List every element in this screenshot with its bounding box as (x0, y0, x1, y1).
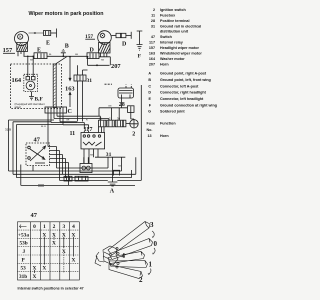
stalk position 1 (109, 261, 148, 268)
svg-text:F: F (138, 54, 142, 60)
connector E (top) (44, 31, 51, 36)
headlight wiper motor 157 (left) (15, 32, 29, 57)
svg-text:P: P (22, 257, 26, 263)
svg-text:1: 1 (149, 261, 153, 269)
svg-text:53b: 53b (20, 241, 28, 247)
wire to terminal (126, 35, 131, 37)
stalk position 0 (109, 239, 153, 260)
switch position table (18, 222, 80, 280)
svg-text:Ignition switch: Ignition switch (160, 8, 187, 12)
svg-text:E: E (46, 41, 50, 47)
ground F (137, 31, 143, 50)
svg-text:30: 30 (117, 116, 120, 120)
svg-text:47: 47 (31, 212, 38, 219)
horizontals under C (51, 116, 109, 129)
svg-text:B: B (148, 78, 151, 82)
svg-text:+53a: +53a (18, 232, 29, 238)
svg-text:Ground point, left, front wing: Ground point, left, front wing (160, 78, 211, 82)
soldered joint box (128, 106, 135, 113)
svg-text:157: 157 (149, 46, 155, 50)
svg-text:11: 11 (151, 13, 155, 17)
svg-text:2: 2 (132, 132, 135, 138)
svg-text:163: 163 (149, 52, 155, 56)
svg-text:C: C (68, 109, 72, 115)
svg-text:A: A (148, 72, 151, 76)
svg-text:Windshield wiper motor: Windshield wiper motor (160, 52, 202, 56)
svg-text:Internal switch positions in s: Internal switch positions in selector 47 (18, 287, 84, 291)
svg-text:31 B: 31 B (5, 128, 11, 132)
wire motor157R to connector D (112, 35, 117, 37)
svg-text:31b: 31b (19, 274, 27, 280)
svg-text:31: 31 (106, 152, 112, 158)
svg-text:0: 0 (33, 224, 36, 230)
svg-text:Switch: Switch (160, 35, 173, 39)
ground rail 31 bus (95, 152, 125, 158)
svg-text:164: 164 (12, 77, 22, 84)
table X marks and links (33, 232, 76, 280)
svg-text:Connector, left headlight: Connector, left headlight (160, 97, 204, 101)
svg-text:GR: GR (66, 120, 70, 122)
stalk position 2 (109, 265, 143, 279)
svg-text:Horn: Horn (160, 134, 169, 138)
svg-text:Ground point, right A-post: Ground point, right A-post (160, 72, 207, 76)
tiny wire labels (38, 185, 44, 187)
wires at connector 31 box (78, 65, 88, 121)
svg-text:D: D (90, 48, 95, 54)
svg-text:E: E (149, 97, 152, 101)
terminal bar (56, 29, 58, 38)
stalk labels (122, 221, 158, 284)
svg-text:13: 13 (148, 134, 152, 138)
svg-text:SB: SB (101, 60, 104, 62)
stalk 4 (park) (108, 252, 145, 264)
svg-text:A: A (110, 189, 115, 195)
svg-text:Wiper motors in park position: Wiper motors in park position (29, 11, 104, 17)
svg-text:Connector, right headlight: Connector, right headlight (160, 91, 207, 95)
svg-text:J: J (23, 249, 26, 255)
svg-text:207: 207 (149, 62, 155, 66)
svg-text:0: 0 (154, 240, 158, 248)
legend (147, 8, 217, 138)
table header glyph (20, 225, 27, 229)
svg-text:4: 4 (122, 252, 126, 260)
svg-text:164: 164 (149, 57, 156, 61)
switch pin stubs (50, 147, 69, 163)
svg-text:11: 11 (70, 131, 76, 137)
wire to terminal (51, 32, 57, 34)
svg-text:C: C (148, 84, 151, 88)
svg-text:2: 2 (139, 276, 143, 284)
svg-text:3: 3 (150, 221, 154, 229)
svg-text:47: 47 (151, 35, 155, 39)
ground B,F under 164 (29, 92, 34, 100)
headlight wiper motor 157 (right) (98, 31, 112, 57)
svg-text:31: 31 (87, 78, 93, 84)
wire D row2 to elbow (99, 57, 110, 66)
svg-text:2: 2 (153, 8, 155, 12)
svg-text:Connector, left A-post: Connector, left A-post (160, 84, 199, 88)
micro wire color-code marks (30, 54, 121, 167)
svg-text:wiper): wiper) (15, 106, 22, 109)
svg-text:207: 207 (111, 63, 121, 70)
svg-text:B: B (65, 44, 69, 50)
wires positive terminal area (99, 98, 134, 120)
svg-text:E: E (37, 48, 41, 54)
svg-text:B,F: B,F (35, 96, 44, 102)
stalk switch sketch (95, 222, 155, 279)
svg-text:117: 117 (84, 126, 93, 133)
connector D (top) (116, 33, 121, 37)
dashed unit box (wiper/washer unit) (11, 64, 62, 109)
arrows (149, 231, 156, 274)
svg-text:R: R (86, 120, 88, 122)
base housing (103, 246, 118, 265)
svg-text:Positive terminal: Positive terminal (160, 19, 190, 23)
svg-text:D: D (122, 42, 127, 48)
connector w/ round pins (lower) (80, 157, 92, 172)
ignition switch 2 (126, 120, 138, 128)
svg-text:Soldered joint: Soldered joint (160, 110, 185, 114)
svg-text:F: F (149, 103, 152, 107)
svg-text:4: 4 (72, 224, 75, 230)
svg-text:SB: SB (118, 166, 121, 168)
connector boxes on bottom wires (64, 176, 72, 181)
svg-text:BL R: BL R (41, 126, 46, 128)
svg-text:X: X (52, 241, 56, 247)
windshield wiper motor 163 (armature bar) (53, 57, 74, 108)
svg-text:163: 163 (65, 86, 75, 93)
svg-text:X: X (42, 266, 46, 272)
svg-text:Fusebox: Fusebox (160, 13, 176, 17)
svg-text:Horn: Horn (160, 62, 169, 66)
interval relay 117 (81, 126, 105, 164)
svg-text:Ground connection at right win: Ground connection at right wing (160, 103, 217, 107)
svg-text:Interval relay: Interval relay (160, 41, 184, 45)
svg-text:X: X (33, 274, 37, 280)
svg-text:Ground rail in electrical: Ground rail in electrical (160, 24, 201, 28)
junction dots (27, 55, 98, 66)
svg-text:X: X (72, 257, 76, 263)
svg-text:Function: Function (160, 122, 176, 126)
connector C (45, 107, 72, 115)
svg-text:2: 2 (53, 224, 56, 230)
svg-text:D: D (148, 91, 151, 95)
svg-text:2: 2 (109, 116, 111, 120)
left rail wires (13, 122, 63, 186)
svg-text:53: 53 (21, 266, 27, 272)
svg-text:GN: GN (108, 106, 112, 108)
wire motor157L to connector E (29, 32, 44, 34)
svg-text:Fuse: Fuse (147, 122, 156, 126)
connector D (second row) (87, 48, 99, 59)
positive terminal 28 (105, 84, 134, 98)
svg-text:28: 28 (151, 19, 155, 23)
connector E (second row) (24, 48, 48, 59)
svg-text:1: 1 (43, 224, 46, 230)
stalk position 3 (108, 222, 150, 256)
vertical wires from C to lower section (48, 113, 50, 147)
washer motor 164 (12, 56, 38, 91)
connector 31 box (upper) (74, 75, 86, 81)
bottom nested wires (13, 85, 141, 185)
svg-text:G: G (148, 110, 151, 114)
horn wire 207 (88, 57, 110, 66)
terminal bar (right) (130, 32, 132, 39)
svg-text:distribution unit: distribution unit (160, 30, 189, 34)
svg-text:117: 117 (149, 41, 155, 45)
svg-text:Washer motor: Washer motor (160, 57, 185, 61)
svg-text:SB: SB (90, 155, 93, 157)
svg-text:3: 3 (62, 224, 65, 230)
loop near A (114, 170, 120, 175)
svg-text:47: 47 (34, 137, 41, 144)
svg-text:Headlight wiper motor: Headlight wiper motor (160, 46, 199, 50)
fusebox 11 (70, 116, 126, 137)
svg-text:No.: No. (147, 128, 153, 132)
svg-text:31: 31 (151, 24, 155, 28)
ground A (108, 157, 118, 186)
ground B (61, 49, 66, 56)
wire row2 (47, 55, 87, 57)
switch 47 (26, 137, 50, 166)
